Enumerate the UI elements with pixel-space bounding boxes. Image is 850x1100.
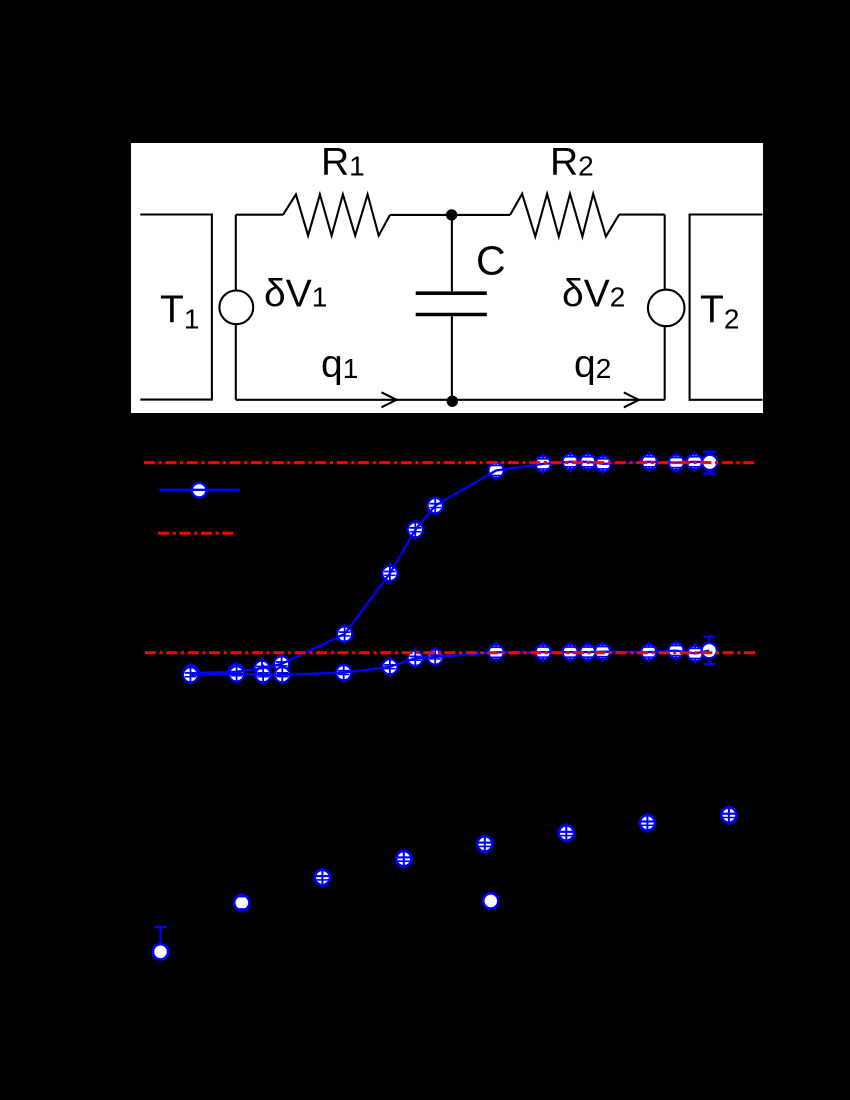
resistor R2 — [510, 194, 619, 237]
red dash-dot reference line (lower) — [145, 651, 757, 654]
top plot curve series B — [191, 651, 710, 675]
error bar last point series B — [703, 637, 715, 665]
error bar last point series A — [703, 452, 716, 474]
bottom point 1 — [153, 944, 168, 959]
capacitor C top lead — [451, 215, 453, 291]
wire R2 to right corner — [619, 214, 665, 216]
source dV2 circle — [648, 290, 685, 327]
wire left loop vertical — [235, 215, 237, 400]
wire top-left segment — [236, 214, 283, 216]
bottom point 7 — [559, 823, 574, 843]
bottom point 9 — [721, 805, 736, 825]
wire bottom rail — [236, 399, 665, 401]
top plot curve series A — [191, 462, 710, 673]
bottom point 8 — [640, 813, 655, 833]
bottom point 4 — [396, 849, 411, 869]
wire right loop vertical — [664, 215, 666, 400]
legend red dash-dot line — [158, 532, 236, 535]
wire R1 to node — [390, 214, 510, 216]
top plot markers series B (q2 data) — [183, 640, 717, 685]
top plot markers series A (q1 data) — [183, 452, 717, 684]
resistor R1 — [283, 194, 390, 235]
bottom point 5 — [477, 834, 492, 854]
source dV1 circle — [219, 290, 253, 324]
bottom point 2 — [234, 893, 249, 913]
node (top junction) — [446, 209, 457, 220]
arrow q1 — [382, 392, 397, 407]
reservoir box T2 — [690, 215, 763, 400]
legend blue line — [159, 489, 240, 491]
bottom point 3 — [315, 867, 330, 887]
capacitor C bottom lead — [451, 316, 453, 400]
red dash-dot reference line (upper) — [144, 461, 757, 464]
node (bottom junction) — [447, 396, 458, 407]
schematic background panel — [131, 143, 763, 413]
arrow q2 — [624, 392, 639, 407]
bottom point 6 (plain) — [483, 893, 498, 908]
bottom point 1 error bar — [154, 927, 167, 945]
reservoir box T1 — [140, 215, 212, 400]
capacitor C plates — [416, 293, 487, 314]
svg-text:C: C — [476, 238, 506, 284]
legend marker — [192, 483, 207, 498]
